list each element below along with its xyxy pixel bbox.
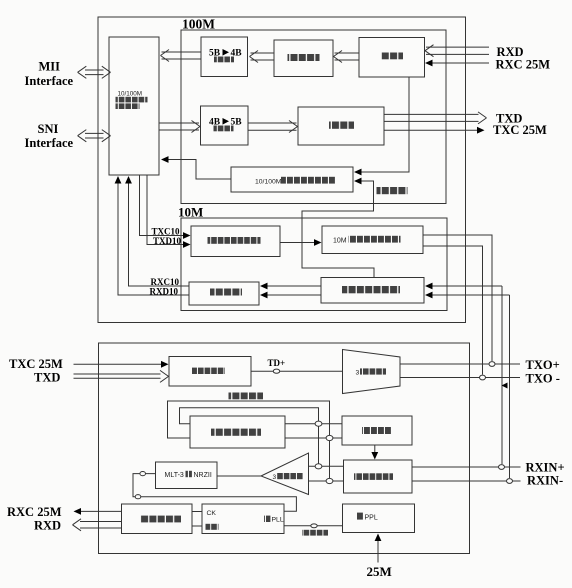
wire baseline to peak-detect line2	[285, 437, 342, 439]
wire RXD10	[118, 177, 189, 295]
wire auto-negotiation input 2 from filter top	[302, 181, 374, 278]
svg-text:TXC10: TXC10	[152, 226, 181, 236]
wire bus data-align to 5B4B	[251, 53, 275, 60]
wire peak-detect to equalizer	[374, 445, 376, 455]
svg-text:TXD: TXD	[34, 371, 60, 385]
box U6 scrambler	[298, 107, 384, 145]
arrowhead 4B5B-to-scrambler open	[289, 121, 298, 133]
wire bus 4B5B to scrambler	[248, 123, 297, 130]
arrowhead descrambler-to-align open	[334, 51, 343, 63]
junction ellipse RXIN+	[499, 465, 505, 470]
label control voltage	[302, 530, 328, 536]
wire bus 5B4B to switch logic	[162, 52, 202, 59]
box U4 descrambler	[359, 38, 425, 78]
wire TXC10	[140, 175, 185, 236]
box U2 5B-4B decoder	[201, 37, 248, 77]
label link pulse	[377, 187, 408, 194]
box U8 Manchester encode logic	[191, 226, 280, 257]
junction ellipse inner loop top	[315, 421, 322, 426]
arrowhead filter input2 solid	[425, 292, 433, 299]
box U5 4B-5B encoder	[201, 106, 249, 145]
svg-text:TXC 25M: TXC 25M	[9, 357, 63, 371]
arrowhead recovery input1 solid	[260, 283, 268, 290]
svg-text:PPL: PPL	[365, 515, 378, 522]
wire MLT-3 around to slave PLL	[133, 474, 296, 512]
wire filter to data recovery line 2	[266, 294, 322, 296]
arrowhead small left on RXIN+ rail	[502, 383, 508, 389]
junction ellipse TD+	[273, 369, 279, 373]
wire CK stub	[192, 511, 202, 513]
svg-text:TD+: TD+	[268, 358, 286, 368]
outer box 100M section	[98, 17, 466, 323]
triangle U17 3-level comparator	[261, 453, 309, 495]
label MII Interface	[25, 59, 74, 88]
wire TXD bus into parallel-serial	[74, 374, 161, 378]
wire comparator input line2	[309, 480, 344, 482]
svg-text:RXC 25M: RXC 25M	[7, 505, 62, 519]
wire TXD10	[147, 175, 185, 245]
arrowhead autoneg input2 solid	[354, 178, 362, 185]
wire RXIN+	[412, 466, 521, 468]
wire RXIN-	[412, 480, 521, 482]
wire shaper out 2 to TXO- rail	[423, 246, 483, 375]
box U19 serial-to-parallel	[122, 504, 193, 534]
junction ellipse comparator line1	[315, 464, 322, 469]
arrowhead autoneg input1 solid	[354, 169, 362, 176]
svg-text:10/100M: 10/100M	[255, 179, 282, 186]
svg-text:RXIN-: RXIN-	[527, 474, 563, 488]
arrowhead TXC10 solid	[183, 232, 191, 239]
wire RXIN- rail into filter	[431, 295, 510, 478]
arrowhead RXC10 up solid	[125, 176, 132, 184]
junction ellipse TXO+	[489, 362, 495, 367]
wire RXC 25M out	[80, 510, 122, 512]
box U20 clock recovery slave PLL	[202, 504, 284, 534]
wire comparator input line1	[309, 465, 344, 467]
arrowhead TXC out solid	[477, 127, 485, 134]
svg-text:TXD10: TXD10	[153, 236, 182, 246]
wire filter to data recovery line 1	[266, 285, 322, 287]
wire descrambler to auto-negotiation	[355, 77, 409, 172]
wire bus switch logic to 4B5B	[159, 123, 199, 130]
wire RXD bus out	[80, 522, 122, 529]
arrowhead 5B4B-to-switch open	[161, 50, 170, 62]
svg-text:RXIN+: RXIN+	[526, 461, 565, 475]
box U1 10/100M duplex switch logic	[109, 37, 159, 175]
svg-text:100M: 100M	[182, 16, 215, 31]
box U12 parallel-to-serial	[169, 357, 251, 387]
svg-text:RXD: RXD	[34, 519, 61, 533]
arrowhead TXD10 solid	[183, 241, 191, 248]
arrowhead peak-to-equalizer down solid	[371, 452, 378, 460]
wire variable-current loop inner	[180, 408, 319, 464]
wire RXD bus into descrambler	[426, 47, 489, 54]
arrowhead switch-to-4B5B open	[192, 121, 201, 133]
svg-text:CK: CK	[207, 510, 217, 517]
junction ellipse MLT-3 left	[140, 472, 146, 476]
box U10 data recovery	[189, 282, 259, 305]
label variable current	[229, 393, 264, 400]
wire TXC 25M out of scrambler	[384, 129, 477, 131]
arrowhead RXD out open	[73, 519, 82, 531]
svg-text:10M: 10M	[178, 205, 203, 220]
svg-text:Interface: Interface	[25, 136, 74, 150]
wire shaper out 1 to TXO+ rail	[423, 235, 492, 361]
svg-text:10M: 10M	[333, 238, 347, 245]
wire TXO-	[400, 377, 520, 379]
box U16 adaptive equalizer	[344, 460, 413, 493]
wire auto-negotiation to switch logic	[162, 160, 231, 180]
arrowhead TXD out open	[478, 112, 487, 124]
svg-text:10/100M: 10/100M	[118, 91, 143, 98]
outer box PMD section	[99, 343, 470, 554]
junction ellipse TXO-	[480, 375, 486, 380]
arrowhead filter input1 solid	[425, 283, 433, 290]
svg-text:RXD10: RXD10	[150, 286, 179, 296]
wire TXO+	[400, 363, 520, 365]
arrowhead into switch logic right solid	[161, 156, 169, 163]
arrowhead RXC solid	[425, 60, 433, 67]
wire bus descrambler to data-align	[335, 53, 360, 60]
arrowhead 25M up solid	[375, 534, 382, 542]
svg-text:3: 3	[273, 474, 277, 481]
box U15 peak detect	[342, 416, 412, 445]
sub-box 100M	[181, 30, 446, 204]
svg-text:PLL: PLL	[272, 516, 284, 523]
box U3 data alignment	[274, 40, 333, 77]
box U9 10M waveform shaping output	[322, 226, 423, 254]
junction ellipse NRZI lower	[135, 495, 141, 499]
junction ellipse outer loop mid	[326, 435, 333, 440]
svg-text:RXC10: RXC10	[151, 277, 180, 287]
wire TD+ to driver	[251, 370, 343, 372]
arrowhead recovery input2 solid	[260, 292, 268, 299]
arrowhead RXD10 up solid	[115, 176, 122, 184]
wire RXIN+ rail into filter	[431, 286, 503, 464]
svg-text:NRZII: NRZII	[194, 472, 212, 479]
wire TXD bus out of scrambler	[384, 114, 479, 121]
wire TXC 25M into parallel-serial	[74, 363, 163, 365]
svg-text:MLT-3: MLT-3	[165, 472, 184, 479]
arrowhead RXC25M out solid	[74, 508, 82, 515]
wire 25M input	[377, 539, 379, 563]
trapezoid U13 3-level driver	[343, 350, 401, 394]
svg-text:MII: MII	[39, 59, 61, 73]
box U21 master PLL	[343, 504, 415, 533]
box U14 baseline wander correction	[190, 416, 285, 448]
box U11 receive low-pass filter	[321, 278, 424, 304]
label SNI Interface	[25, 122, 74, 150]
MII double arrow	[78, 66, 111, 78]
wire comparator to MLT-3	[217, 475, 261, 477]
svg-text:3: 3	[356, 370, 360, 377]
box U7 10/100M auto-negotiation control logic	[231, 167, 353, 192]
wire Manchester to shaper	[280, 242, 316, 244]
svg-text:25M: 25M	[367, 564, 392, 579]
svg-text:TXC 25M: TXC 25M	[493, 123, 547, 137]
wire RXC10	[129, 177, 190, 286]
SNI double arrow	[78, 130, 111, 142]
wire control voltage	[284, 525, 343, 527]
svg-text:RXC 25M: RXC 25M	[496, 58, 551, 72]
arrowhead Manchester-to-shaper solid	[314, 239, 322, 246]
wire data stub	[192, 525, 202, 527]
svg-text:Interface: Interface	[25, 74, 74, 88]
wire baseline to peak-detect line1	[285, 423, 342, 425]
svg-text:SNI: SNI	[38, 122, 59, 136]
junction ellipse RXIN-	[507, 479, 513, 484]
svg-text:TXO -: TXO -	[526, 372, 560, 386]
box U18 MLT-3 to NRZI	[156, 462, 218, 489]
arrowhead TXD in open	[160, 370, 169, 382]
arrowhead RXD open	[425, 45, 434, 57]
junction ellipse comparator line2	[326, 478, 333, 483]
wire RXC 25M into descrambler	[431, 62, 489, 64]
junction ellipse control voltage	[311, 524, 317, 528]
wire variable-current loop outer	[168, 401, 330, 478]
arrowhead align-to-5B4B open	[250, 51, 259, 63]
sub-box 10M	[181, 218, 447, 311]
svg-text:TXO+: TXO+	[526, 358, 560, 372]
arrowhead TXC25M in solid	[161, 361, 169, 368]
